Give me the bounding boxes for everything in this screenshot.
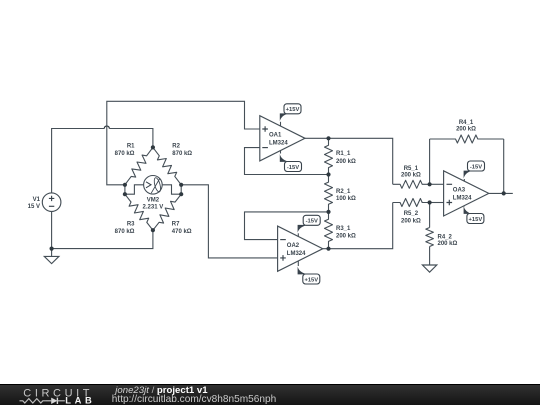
OA2 label (287, 243, 306, 257)
wire R4_1 to OA3 output (503, 139, 505, 193)
node bridge top (151, 145, 155, 149)
svg-text:200 kΩ: 200 kΩ (438, 241, 458, 247)
R7 value label (172, 222, 192, 236)
svg-text:-15V: -15V (470, 164, 482, 170)
svg-text:15 V: 15 V (28, 204, 40, 210)
svg-text:R2_1: R2_1 (336, 189, 351, 195)
OA1 label (269, 133, 288, 147)
svg-text:R5_1: R5_1 (404, 166, 419, 172)
resistor R5_1 (393, 180, 430, 188)
resistor R1 (125, 147, 153, 184)
svg-text:R5_2: R5_2 (404, 211, 419, 217)
svg-text:-15V: -15V (306, 219, 318, 225)
ground (V1) (44, 249, 59, 264)
svg-text:OA1: OA1 (269, 133, 282, 139)
wire VM2 right terminal (162, 185, 181, 194)
node bridge right upper (179, 183, 183, 187)
ground (R4_2) (422, 265, 436, 272)
CircuitLab logo (0, 385, 110, 405)
resistor R2_1 (325, 175, 333, 212)
power flag -15V (OA1) (280, 150, 302, 172)
VM2 value label (143, 198, 164, 211)
R1 value label (115, 144, 135, 158)
svg-text:V1: V1 (33, 197, 41, 203)
svg-text:R1_1: R1_1 (336, 151, 351, 157)
svg-text:R3: R3 (127, 222, 135, 228)
node bridge left upper (123, 183, 127, 187)
svg-text:R4_1: R4_1 (459, 120, 474, 126)
svg-text:+15V: +15V (304, 277, 318, 283)
svg-text:LM324: LM324 (269, 140, 288, 146)
svg-text:-15V: -15V (287, 165, 299, 171)
resistor R7 (153, 194, 181, 230)
power flag +15V (OA2) (298, 261, 320, 284)
svg-text:R1: R1 (127, 144, 135, 150)
svg-text:OA3: OA3 (453, 188, 466, 194)
resistor R4_2 (426, 203, 434, 266)
node R1_1/R2_1 (326, 172, 330, 176)
node OA3 + input (428, 200, 432, 204)
power flag +15V (OA3) (464, 206, 484, 224)
svg-text:VM2: VM2 (147, 198, 160, 204)
wire OA1 - input to R1_1/R2_1 node (245, 148, 329, 175)
wire OA1 output to R5_1 (305, 138, 393, 184)
svg-text:+15V: +15V (469, 217, 483, 223)
svg-text:870 kΩ: 870 kΩ (115, 229, 135, 235)
op-amp OA3 (444, 171, 489, 216)
wire OA3 feedback to R4_1 (429, 139, 431, 184)
power flag -15V (OA3) (464, 161, 485, 181)
footer url text (112, 394, 276, 405)
wire OA2 - input to R2_1/R3_1 node (245, 212, 329, 240)
node OA3 - input (428, 182, 432, 186)
node OA1 output (326, 136, 330, 140)
wire bridge left node to OA1 + input (107, 101, 260, 185)
node bridge bottom (151, 228, 155, 232)
svg-text:LM324: LM324 (287, 251, 306, 257)
wire OA3 output (489, 192, 513, 194)
svg-text:R2: R2 (172, 144, 180, 150)
R3 value label (115, 222, 135, 236)
voltmeter VM2 (144, 176, 163, 195)
svg-text:200 kΩ: 200 kΩ (401, 218, 421, 224)
R2 value label (172, 144, 192, 158)
power flag +15V (OA1) (280, 104, 301, 126)
resistor R3 (125, 194, 153, 230)
svg-text:470 kΩ: 470 kΩ (172, 229, 192, 235)
voltage source V1 (42, 193, 61, 212)
node OA3 output (502, 191, 506, 195)
footer title text (115, 385, 207, 396)
svg-text:R3_1: R3_1 (336, 226, 351, 232)
svg-text:R4_2: R4_2 (438, 234, 453, 240)
svg-text:OA2: OA2 (287, 243, 300, 249)
power flag -15V (OA2) (298, 215, 321, 237)
op-amp OA1 (260, 116, 305, 161)
svg-text:2.231 V: 2.231 V (143, 204, 164, 210)
svg-text:200 kΩ: 200 kΩ (336, 233, 356, 239)
wire bridge right node to OA2 + input (181, 185, 277, 258)
node bridge right lower (179, 192, 183, 196)
V1 value label (28, 197, 41, 210)
svg-text:+15V: +15V (286, 107, 300, 113)
R1_1 value label (336, 151, 356, 165)
R5_1 value label (401, 166, 421, 179)
R3_1 value label (336, 226, 356, 240)
wire OA2 output to R5_2 (323, 203, 393, 249)
op-amp OA2 (278, 226, 323, 271)
wire bridge left post (124, 185, 126, 194)
svg-text:LM324: LM324 (453, 196, 472, 202)
wire R5_2 to OA3 + input (430, 202, 444, 204)
resistor R3_1 (325, 212, 333, 249)
wire V1- to bridge bottom (52, 212, 153, 249)
R4_1 value label (456, 120, 476, 133)
wire VM2 left terminal (125, 185, 144, 194)
svg-text:870 kΩ: 870 kΩ (172, 151, 192, 157)
node V1- / ground (50, 247, 54, 251)
node OA2 output (326, 247, 330, 251)
svg-text:100 kΩ: 100 kΩ (336, 196, 356, 202)
wire V1+ to bridge top (with hop over OA1 wire) (52, 126, 153, 193)
R4_2 value label (438, 234, 458, 247)
svg-text:LAB: LAB (65, 394, 92, 405)
svg-text:200 kΩ: 200 kΩ (456, 127, 476, 133)
resistor R5_2 (393, 199, 430, 207)
svg-text:R7: R7 (172, 222, 180, 228)
resistor R1_1 (325, 138, 333, 174)
R5_2 value label (401, 211, 421, 225)
wire bridge right post (180, 185, 182, 194)
resistor R2 (153, 147, 181, 184)
svg-text:200 kΩ: 200 kΩ (336, 159, 356, 165)
R2_1 value label (336, 189, 356, 202)
wire R5_1 to OA3 - input (430, 183, 444, 185)
svg-text:870 kΩ: 870 kΩ (115, 151, 135, 157)
resistor R4_1 (430, 135, 504, 143)
OA3 label (453, 188, 472, 202)
node R2_1/R3_1 (326, 210, 330, 214)
svg-text:200 kΩ: 200 kΩ (401, 172, 421, 178)
node bridge left lower (123, 192, 127, 196)
